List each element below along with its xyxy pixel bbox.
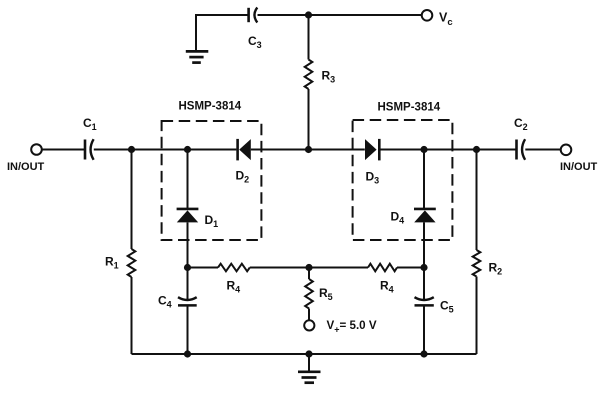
diode D3 [365, 139, 379, 186]
node C (D3 / D4 junction) [420, 146, 427, 153]
resistor R1 [105, 150, 135, 355]
wire (D3 to C2) [379, 149, 516, 151]
capacitor C1 [83, 116, 97, 160]
wire (C2 to right terminal) [525, 149, 560, 151]
svg-text:R4: R4 [227, 278, 241, 294]
terminal IN/OUT (left) [7, 144, 45, 173]
node E (D1 / C4 / R4 junction) [184, 264, 191, 271]
resistor R4 (left) [218, 264, 250, 295]
svg-text:HSMP-3814: HSMP-3814 [378, 102, 441, 114]
svg-text:D3: D3 [366, 170, 380, 186]
svg-text:C4: C4 [158, 294, 172, 310]
capacitor C3 [248, 8, 262, 51]
svg-text:IN/OUT: IN/OUT [7, 161, 45, 173]
svg-text:C1: C1 [83, 116, 97, 132]
wire (node E to R4 left) [188, 267, 219, 269]
svg-text:R5: R5 [319, 286, 333, 302]
terminal V+ = 5.0 V [304, 319, 377, 334]
svg-text:C2: C2 [514, 116, 528, 132]
node B (D1 / D2 junction) [184, 146, 191, 153]
dashed box (left HSMP-3814 package) [162, 121, 262, 240]
resistor R4 (right) [368, 264, 397, 295]
node J (C5 / bottom rail) [420, 350, 427, 357]
node D (C2 / R2 junction) [473, 146, 480, 153]
node I (ground / bottom rail) [305, 350, 312, 357]
svg-text:Vc: Vc [439, 11, 453, 29]
wire (node B down to D1) [187, 150, 189, 209]
diode D1 [177, 209, 219, 229]
svg-text:R4: R4 [380, 278, 394, 294]
wire (R4 left to node F) [250, 267, 309, 269]
wire (left terminal to C1) [42, 149, 85, 151]
wire (D2 to D3) [251, 149, 365, 151]
ground (bottom) [298, 354, 321, 383]
wire (R4 right to node G) [397, 267, 424, 269]
capacitor C4 [158, 268, 197, 355]
svg-text:C5: C5 [440, 299, 454, 315]
resistor R2 [473, 150, 502, 355]
svg-text:V+= 5.0 V: V+= 5.0 V [327, 319, 377, 334]
svg-text:D4: D4 [391, 209, 405, 225]
capacitor C5 [415, 268, 454, 355]
svg-text:R2: R2 [489, 261, 503, 277]
wire (C3 to Vc) [258, 14, 422, 16]
node (top, R3 junction) [305, 11, 312, 18]
capacitor C2 [514, 116, 528, 160]
diode D2 [236, 139, 251, 185]
svg-text:R1: R1 [105, 255, 119, 271]
wire top-left (ground riser to C3) [196, 15, 248, 50]
node H (C4 / bottom rail) [184, 350, 191, 357]
node (R3 / main line junction) [305, 146, 312, 153]
svg-text:R3: R3 [322, 69, 336, 85]
terminal IN/OUT (right) [560, 145, 598, 174]
svg-text:D1: D1 [205, 213, 219, 229]
node F (R4 / R5 junction) [305, 264, 312, 271]
node G (D4 / C5 / R4 junction) [420, 264, 427, 271]
wire (D1 to node E) [187, 222, 189, 267]
resistor R3 [305, 15, 335, 150]
ground (top left) [186, 51, 209, 62]
wire (node C down to D4) [423, 150, 425, 209]
wire (D4 to node G) [423, 222, 425, 267]
terminal Vc [422, 10, 453, 28]
wire (C1 to D2) [94, 149, 237, 151]
svg-text:D2: D2 [236, 169, 250, 185]
node A (C1 / R1 junction) [128, 146, 135, 153]
wire (bottom rail) [132, 353, 477, 355]
resistor R5 [305, 268, 332, 321]
dashed box (right HSMP-3814 package) [353, 120, 453, 240]
wire (node F to R4 right) [309, 267, 368, 269]
svg-text:C3: C3 [248, 34, 262, 50]
svg-text:IN/OUT: IN/OUT [560, 161, 598, 173]
svg-text:HSMP-3814: HSMP-3814 [179, 101, 242, 113]
diode D4 [391, 209, 436, 225]
